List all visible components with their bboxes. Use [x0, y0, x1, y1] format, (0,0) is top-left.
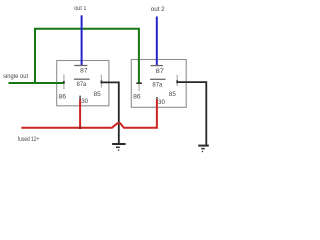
- svg-text:out 1: out 1: [74, 6, 87, 12]
- relay K1 pin 86 terminal: [63, 74, 65, 89]
- svg-text:87a: 87a: [77, 81, 87, 88]
- svg-text:87: 87: [80, 67, 88, 74]
- relay K2 pin 30 stub: [156, 97, 158, 100]
- junction red T: [79, 127, 81, 129]
- relay K2 pin 85 terminal: [176, 75, 178, 86]
- wire red fused 12+ bus with hop: [21, 100, 157, 128]
- relay K2 pin 86 terminal: [136, 83, 142, 91]
- svg-text:87: 87: [156, 68, 165, 75]
- wire black K2-85 to ground: [177, 82, 206, 145]
- relay K1 pin 30 stub: [79, 96, 81, 100]
- svg-text:single out: single out: [3, 74, 28, 80]
- relay K2 pin 87 contact: [151, 65, 163, 67]
- wire red K1 pin30 drop: [79, 99, 81, 128]
- relay K2 box: [131, 60, 186, 108]
- relay K2 pin 87a contact: [150, 78, 166, 80]
- wire green single-out horizontal: [9, 82, 65, 84]
- ground 2 symbol: [198, 146, 209, 152]
- svg-text:30: 30: [81, 98, 88, 105]
- relay K1 pin 85 terminal: [100, 75, 102, 88]
- svg-text:86: 86: [59, 93, 67, 100]
- svg-text:85: 85: [94, 91, 102, 98]
- wire blue out2: [156, 17, 158, 66]
- svg-text:85: 85: [169, 91, 176, 98]
- wire blue out1: [81, 15, 83, 65]
- wire black K1-85 to ground: [101, 82, 118, 144]
- svg-text:86: 86: [133, 94, 141, 101]
- relay K1 pin 87 contact: [74, 65, 87, 67]
- svg-text:30: 30: [158, 99, 165, 106]
- svg-text:out 2: out 2: [151, 7, 165, 13]
- ground 1 symbol: [112, 144, 126, 150]
- svg-text:fused 12+: fused 12+: [18, 137, 40, 143]
- relay K1 box: [57, 61, 109, 106]
- relay K1 pin 87a contact: [74, 78, 90, 80]
- wire green branch up-over to K2: [35, 29, 139, 84]
- svg-text:87a: 87a: [152, 81, 162, 88]
